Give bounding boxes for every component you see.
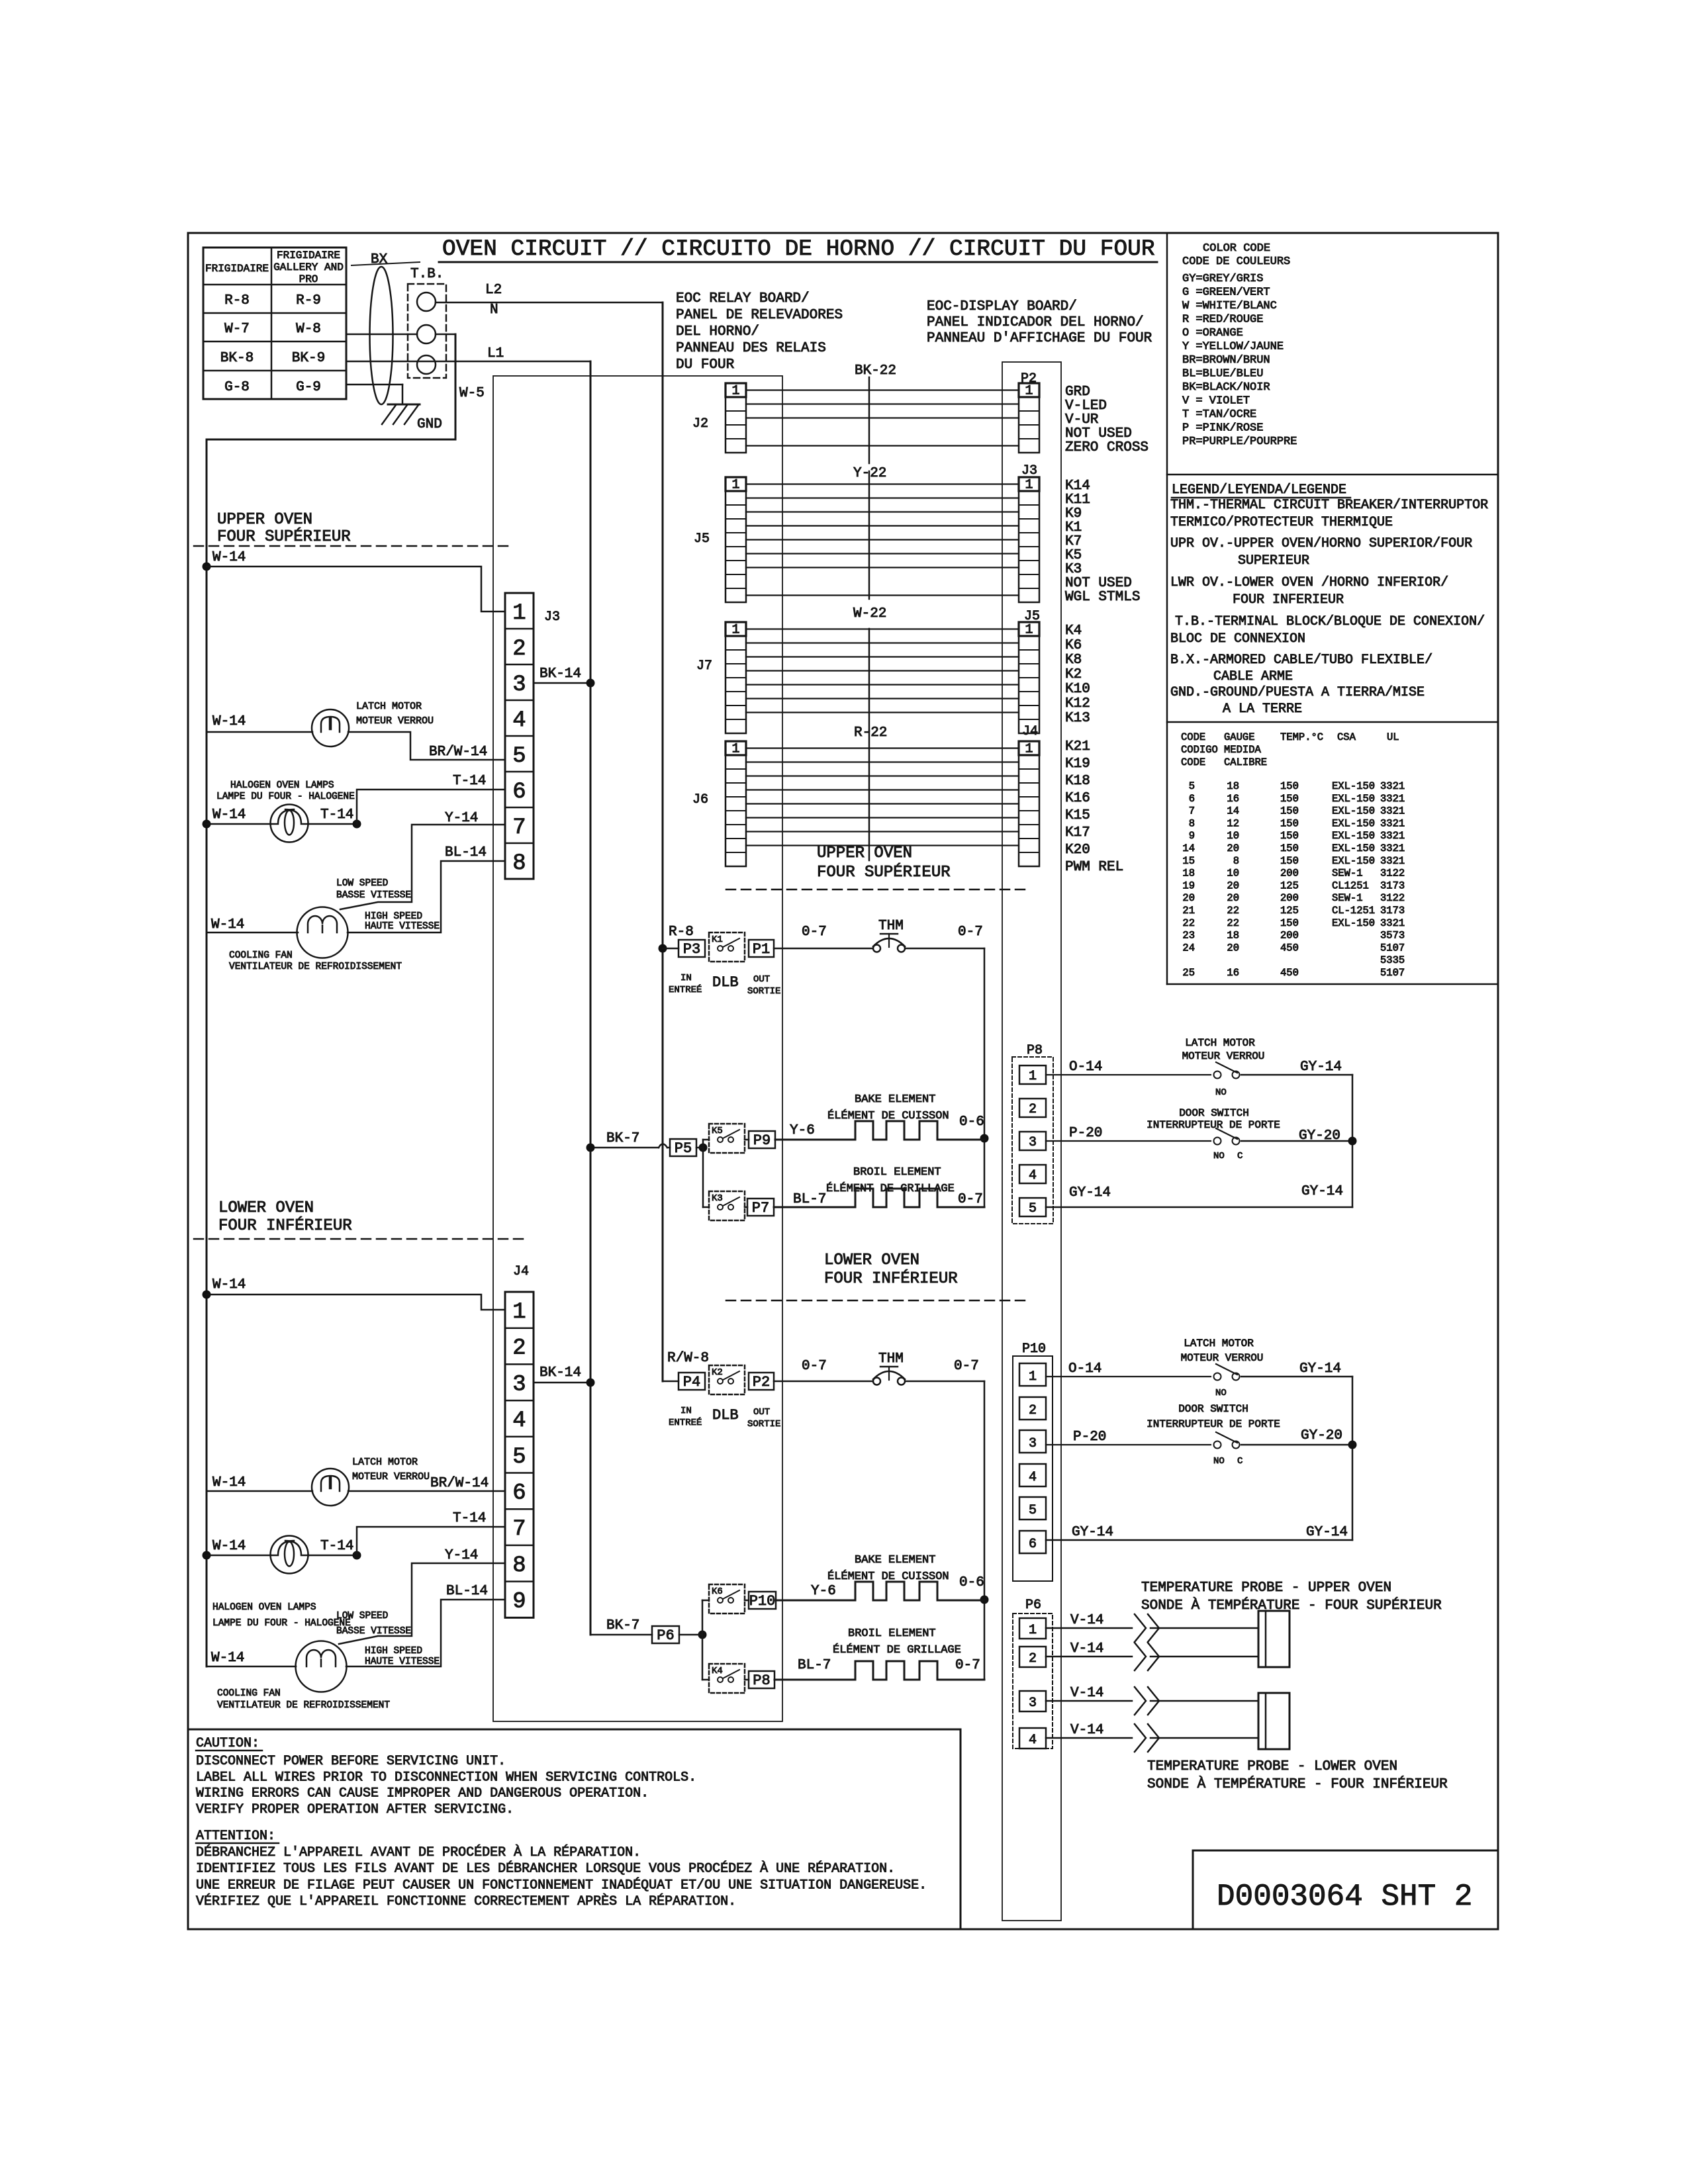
ground GND (388, 404, 420, 406)
svg-text:LWR OV.-LOWER OVEN /HORNO INFE: LWR OV.-LOWER OVEN /HORNO INFERIOR/ (1170, 575, 1448, 590)
svg-text:P-20: P-20 (1069, 1126, 1102, 1141)
svg-text:5107: 5107 (1380, 942, 1405, 954)
svg-text:J5: J5 (1024, 609, 1040, 624)
svg-text:UPPER OVEN: UPPER OVEN (217, 511, 312, 529)
svg-text:T =TAN/OCRE: T =TAN/OCRE (1182, 408, 1256, 421)
svg-text:K17: K17 (1065, 825, 1090, 841)
svg-text:3122: 3122 (1380, 892, 1405, 904)
svg-text:J5: J5 (694, 531, 710, 547)
svg-text:DOOR SWITCH: DOOR SWITCH (1179, 1107, 1249, 1119)
svg-text:COOLING FAN: COOLING FAN (229, 950, 293, 961)
svg-text:UPPER OVEN: UPPER OVEN (817, 844, 912, 862)
svg-text:K8: K8 (1065, 653, 1082, 668)
svg-text:J7: J7 (696, 659, 712, 674)
wire BK-22 row 3 (746, 417, 1019, 418)
connector P3 (679, 940, 705, 957)
svg-text:W-14: W-14 (211, 1651, 244, 1666)
svg-text:BK-7: BK-7 (606, 1131, 639, 1146)
svg-text:P6: P6 (1025, 1598, 1041, 1613)
svg-text:W-8: W-8 (296, 322, 321, 337)
svg-text:CL-1251: CL-1251 (1332, 905, 1375, 917)
svg-text:GY-14: GY-14 (1072, 1525, 1113, 1540)
wire R-22 row 4 (746, 789, 1019, 790)
svg-text:3: 3 (1029, 1696, 1037, 1711)
svg-text:1: 1 (731, 478, 739, 493)
connector J2 (left) (726, 383, 746, 453)
svg-text:1: 1 (1029, 1069, 1037, 1084)
svg-text:200: 200 (1280, 892, 1299, 904)
svg-text:D0003064 SHT 2: D0003064 SHT 2 (1217, 1880, 1472, 1914)
svg-text:150: 150 (1280, 917, 1299, 929)
svg-text:2: 2 (512, 1336, 526, 1361)
svg-text:20: 20 (1227, 842, 1239, 854)
relay K6 (709, 1584, 745, 1614)
wire 0-7/0-6 right leg upper (984, 948, 986, 1207)
svg-text:PANEL INDICADOR DEL HORNO/: PANEL INDICADOR DEL HORNO/ (927, 315, 1144, 330)
svg-text:DU FOUR: DU FOUR (676, 357, 735, 373)
svg-text:NO: NO (1213, 1151, 1225, 1161)
svg-text:HALOGEN OVEN LAMPS: HALOGEN OVEN LAMPS (230, 780, 334, 791)
svg-text:3573: 3573 (1380, 930, 1405, 942)
svg-text:150: 150 (1280, 817, 1299, 829)
svg-text:K5: K5 (712, 1126, 723, 1136)
connector J6 (left) (726, 741, 746, 866)
svg-text:PWM REL: PWM REL (1065, 860, 1123, 875)
svg-text:CODIGO: CODIGO (1181, 744, 1218, 756)
svg-text:14: 14 (1227, 805, 1239, 817)
svg-text:HAUTE VITESSE: HAUTE VITESSE (365, 1657, 440, 1667)
svg-text:BK-22: BK-22 (855, 363, 896, 379)
svg-text:NO: NO (1215, 1087, 1227, 1098)
svg-text:HAUTE VITESSE: HAUTE VITESSE (365, 921, 440, 932)
svg-text:DLB: DLB (712, 1407, 739, 1424)
svg-text:SEW-1: SEW-1 (1332, 892, 1363, 904)
title block D0003064 (1193, 1850, 1498, 1852)
svg-text:CALIBRE: CALIBRE (1224, 756, 1267, 768)
svg-text:R-22: R-22 (854, 725, 887, 741)
svg-text:K6: K6 (1065, 638, 1082, 653)
node L2 bus (662, 302, 664, 1381)
svg-text:THM: THM (878, 919, 904, 934)
svg-text:BAKE ELEMENT: BAKE ELEMENT (855, 1093, 935, 1106)
connector J5 (right) (1019, 622, 1039, 733)
svg-text:OUT: OUT (753, 1407, 770, 1418)
svg-text:CSA: CSA (1337, 731, 1356, 743)
svg-text:ENTREÉ: ENTREÉ (669, 1416, 702, 1428)
svg-text:2: 2 (512, 637, 526, 662)
svg-text:BK-8: BK-8 (220, 351, 254, 366)
svg-text:24: 24 (1182, 942, 1195, 954)
svg-text:7: 7 (1189, 805, 1195, 817)
wire Y-22 row 4 (746, 525, 1019, 526)
svg-text:BK-14: BK-14 (539, 666, 581, 682)
svg-text:GY-14: GY-14 (1299, 1361, 1341, 1377)
svg-text:9: 9 (1189, 830, 1195, 842)
wire R-22 row 8 (746, 844, 1019, 846)
svg-text:LAMPE DU FOUR - HALOGENE: LAMPE DU FOUR - HALOGENE (212, 1618, 351, 1629)
svg-text:K12: K12 (1065, 696, 1090, 711)
relay K3 feed (703, 1206, 709, 1208)
svg-text:19: 19 (1182, 880, 1195, 891)
relay K5 (709, 1124, 745, 1153)
svg-text:W-22: W-22 (853, 606, 886, 621)
svg-text:SEW-1: SEW-1 (1332, 868, 1363, 880)
svg-text:0-7: 0-7 (958, 1192, 983, 1207)
wire R-22 row 7 (746, 831, 1019, 832)
svg-text:BK-7: BK-7 (606, 1618, 639, 1633)
wire GY-14 lower latch (1241, 1376, 1352, 1378)
svg-text:22: 22 (1227, 905, 1239, 917)
svg-text:B.X.-ARMORED CABLE/TUBO FLEXIB: B.X.-ARMORED CABLE/TUBO FLEXIBLE/ (1170, 653, 1432, 668)
svg-text:3: 3 (512, 1372, 526, 1397)
svg-text:PANNEAU DES RELAIS: PANNEAU DES RELAIS (676, 341, 826, 356)
svg-text:2: 2 (1029, 1102, 1037, 1117)
svg-text:W-7: W-7 (224, 322, 250, 337)
svg-text:R =RED/ROUGE: R =RED/ROUGE (1182, 314, 1263, 326)
connector P4 (679, 1373, 705, 1390)
svg-text:V-14: V-14 (1070, 1641, 1103, 1657)
node W bus (206, 439, 208, 1666)
svg-text:150: 150 (1280, 855, 1299, 867)
svg-text:22: 22 (1182, 917, 1195, 929)
EOC relay board box (493, 376, 782, 1721)
svg-text:J2: J2 (692, 416, 708, 432)
svg-text:1: 1 (1025, 623, 1033, 638)
svg-text:0-7: 0-7 (954, 1359, 979, 1374)
svg-text:LOWER OVEN: LOWER OVEN (218, 1199, 314, 1217)
svg-text:P7: P7 (752, 1200, 769, 1216)
svg-text:6: 6 (512, 1481, 526, 1506)
svg-text:NO: NO (1213, 1456, 1225, 1467)
svg-text:1: 1 (1029, 1623, 1037, 1638)
svg-text:6: 6 (512, 780, 526, 805)
svg-text:EOC RELAY BOARD/: EOC RELAY BOARD/ (676, 291, 810, 306)
svg-text:6: 6 (1189, 793, 1195, 805)
svg-text:1: 1 (512, 601, 526, 626)
wire Y-22 row 1 (746, 483, 1019, 484)
svg-text:P5: P5 (675, 1140, 692, 1157)
connector P3/P4 in (663, 948, 679, 950)
svg-text:K14: K14 (1065, 478, 1090, 494)
svg-text:V-LED: V-LED (1065, 398, 1107, 414)
svg-text:3321: 3321 (1380, 780, 1405, 792)
wire 0-7 upper in (774, 948, 872, 950)
connector P10 (749, 1592, 776, 1609)
wire R-22 row 6 (746, 817, 1019, 818)
svg-text:MOTEUR VERROU: MOTEUR VERROU (1181, 1352, 1264, 1364)
svg-text:BROIL ELEMENT: BROIL ELEMENT (848, 1627, 936, 1640)
svg-text:ZERO CROSS: ZERO CROSS (1065, 440, 1149, 455)
svg-text:1: 1 (1029, 1369, 1037, 1385)
svg-text:0-7: 0-7 (958, 925, 983, 940)
svg-text:IN: IN (680, 1406, 692, 1416)
svg-text:BL-7: BL-7 (798, 1658, 831, 1673)
svg-text:20: 20 (1227, 892, 1239, 904)
svg-text:VENTILATEUR DE REFROIDISSEMENT: VENTILATEUR DE REFROIDISSEMENT (217, 1700, 390, 1711)
wire 0-7 upper out (906, 948, 984, 950)
svg-text:INTERRUPTEUR DE PORTE: INTERRUPTEUR DE PORTE (1147, 1119, 1280, 1131)
gauge table box (1167, 983, 1498, 985)
svg-text:R/W-8: R/W-8 (667, 1351, 709, 1366)
svg-text:L2: L2 (485, 283, 502, 298)
svg-text:K2: K2 (712, 1367, 723, 1378)
svg-text:4: 4 (512, 708, 526, 733)
svg-text:K1: K1 (1065, 520, 1082, 535)
svg-text:Y-6: Y-6 (811, 1584, 836, 1599)
wire 0-7/0-6 right leg lower (984, 1381, 986, 1680)
svg-text:FOUR INFERIEUR: FOUR INFERIEUR (1233, 592, 1344, 608)
svg-text:CABLE ARME: CABLE ARME (1213, 669, 1293, 684)
svg-text:125: 125 (1280, 880, 1299, 891)
svg-text:GND.-GROUND/PUESTA A TIERRA/MI: GND.-GROUND/PUESTA A TIERRA/MISE (1170, 685, 1425, 700)
svg-text:MOTEUR VERROU: MOTEUR VERROU (352, 1471, 430, 1482)
svg-text:K20: K20 (1065, 842, 1090, 858)
wire GY-14 upper return (1046, 1206, 1352, 1208)
svg-text:3: 3 (512, 672, 526, 698)
svg-text:LAMPE DU FOUR - HALOGENE: LAMPE DU FOUR - HALOGENE (216, 792, 355, 802)
svg-text:J4: J4 (1022, 724, 1038, 739)
svg-text:J3: J3 (1021, 463, 1037, 478)
svg-text:3321: 3321 (1380, 842, 1405, 854)
svg-text:LATCH MOTOR: LATCH MOTOR (1184, 1338, 1254, 1349)
svg-text:4: 4 (1029, 1733, 1037, 1748)
svg-text:O-14: O-14 (1069, 1060, 1102, 1075)
svg-text:NOT USED: NOT USED (1065, 576, 1132, 591)
svg-text:LEGEND/LEYENDA/LEGENDE: LEGEND/LEYENDA/LEGENDE (1172, 482, 1346, 498)
svg-text:3: 3 (1029, 1436, 1037, 1451)
svg-text:TERMICO/PROTECTEUR THERMIQUE: TERMICO/PROTECTEUR THERMIQUE (1170, 515, 1393, 530)
svg-text:DOOR SWITCH: DOOR SWITCH (1178, 1403, 1248, 1415)
svg-text:FRIGIDAIRE: FRIGIDAIRE (205, 263, 269, 275)
svg-text:BAKE ELEMENT: BAKE ELEMENT (855, 1554, 935, 1567)
svg-text:J3: J3 (544, 610, 560, 625)
wire Y-22 row 9 (746, 594, 1019, 596)
svg-text:P4: P4 (683, 1374, 700, 1390)
svg-text:0-7: 0-7 (802, 925, 827, 940)
svg-text:5335: 5335 (1380, 954, 1405, 966)
wire R-22 row 3 (746, 775, 1019, 776)
svg-text:SUPERIEUR: SUPERIEUR (1238, 553, 1309, 569)
svg-text:HALOGEN OVEN LAMPS: HALOGEN OVEN LAMPS (212, 1602, 316, 1613)
wire L2 (436, 302, 663, 304)
svg-text:1: 1 (1025, 742, 1033, 757)
svg-text:K21: K21 (1065, 739, 1090, 754)
svg-text:BL-14: BL-14 (445, 845, 487, 860)
svg-text:GY-20: GY-20 (1299, 1128, 1340, 1144)
svg-text:14: 14 (1182, 842, 1195, 854)
relay K4 feed (702, 1679, 709, 1681)
border frame (188, 233, 1498, 1929)
svg-text:ENTREÉ: ENTREÉ (669, 983, 702, 995)
svg-text:2: 2 (1029, 1651, 1037, 1666)
svg-text:K7: K7 (1065, 534, 1082, 549)
svg-text:5: 5 (1029, 1201, 1037, 1216)
svg-text:ATTENTION:: ATTENTION: (196, 1829, 275, 1844)
svg-text:PANNEAU D'AFFICHAGE DU FOUR: PANNEAU D'AFFICHAGE DU FOUR (927, 331, 1152, 346)
svg-text:P6: P6 (657, 1627, 674, 1644)
wire V-14 probe 1 (1046, 1627, 1132, 1629)
svg-text:150: 150 (1280, 805, 1299, 817)
svg-text:K13: K13 (1065, 711, 1090, 726)
svg-text:CAUTION:: CAUTION: (196, 1736, 259, 1751)
wire K6/K4 split lower (702, 1600, 704, 1680)
svg-text:Y-14: Y-14 (445, 811, 478, 826)
wire N (346, 334, 417, 336)
connector P8 (749, 1671, 774, 1688)
svg-text:3321: 3321 (1380, 917, 1405, 929)
wire GY-20 upper (1241, 1140, 1352, 1142)
svg-text:PRO: PRO (299, 273, 318, 285)
svg-text:LATCH MOTOR: LATCH MOTOR (352, 1457, 418, 1468)
svg-text:A LA TERRE: A LA TERRE (1223, 702, 1302, 717)
svg-text:PR=PURPLE/POURPRE: PR=PURPLE/POURPRE (1182, 435, 1297, 448)
svg-text:K3: K3 (1065, 562, 1082, 577)
svg-text:EXL-150: EXL-150 (1332, 780, 1375, 792)
svg-text:EXL-150: EXL-150 (1332, 830, 1375, 842)
svg-text:MEDIDA: MEDIDA (1224, 744, 1262, 756)
svg-text:CODE: CODE (1181, 756, 1205, 768)
svg-text:P3: P3 (683, 941, 700, 958)
node L1/BK bus (590, 361, 592, 1635)
svg-text:1: 1 (731, 742, 739, 757)
svg-text:K4: K4 (712, 1666, 723, 1676)
svg-text:V-14: V-14 (1070, 1686, 1103, 1701)
svg-text:8: 8 (1189, 817, 1195, 829)
svg-text:TEMP.°C: TEMP.°C (1280, 731, 1323, 743)
svg-text:1: 1 (731, 384, 739, 399)
svg-text:8: 8 (512, 851, 526, 876)
svg-text:3321: 3321 (1380, 855, 1405, 867)
svg-text:GRD: GRD (1065, 385, 1090, 400)
EOC display board box (1002, 362, 1061, 1921)
svg-text:W-14: W-14 (212, 1277, 246, 1293)
svg-text:IDENTIFIEZ TOUS LES FILS AVANT: IDENTIFIEZ TOUS LES FILS AVANT DE LES DÉ… (196, 1861, 895, 1877)
svg-text:FRIGIDAIRE: FRIGIDAIRE (277, 250, 340, 261)
svg-text:150: 150 (1280, 780, 1299, 792)
svg-text:MOTEUR VERROU: MOTEUR VERROU (356, 715, 434, 727)
svg-text:WIRING ERRORS CAN CAUSE IMPROP: WIRING ERRORS CAN CAUSE IMPROPER AND DAN… (196, 1786, 649, 1801)
svg-text:5107: 5107 (1380, 967, 1405, 979)
svg-text:3: 3 (1029, 1135, 1037, 1150)
wire 0-7 lower in (774, 1381, 872, 1383)
svg-text:T-14: T-14 (453, 1511, 486, 1526)
color code box (1166, 233, 1168, 984)
svg-text:LOW SPEED: LOW SPEED (336, 1611, 388, 1621)
svg-text:K4: K4 (1065, 623, 1082, 639)
svg-text:K19: K19 (1065, 756, 1090, 772)
svg-text:1: 1 (512, 1300, 526, 1325)
svg-text:W-14: W-14 (212, 1475, 246, 1490)
svg-text:W-14: W-14 (211, 917, 244, 933)
svg-text:0-6: 0-6 (959, 1575, 984, 1590)
svg-text:TEMPERATURE PROBE - UPPER OVEN: TEMPERATURE PROBE - UPPER OVEN (1141, 1580, 1391, 1596)
svg-text:VÉRIFIEZ QUE L'APPAREIL FONCTI: VÉRIFIEZ QUE L'APPAREIL FONCTIONNE CORRE… (196, 1893, 736, 1909)
svg-text:SORTIE: SORTIE (747, 986, 780, 997)
relay K3 (709, 1191, 745, 1220)
svg-text:BASSE VITESSE: BASSE VITESSE (336, 1626, 411, 1637)
svg-text:200: 200 (1280, 868, 1299, 880)
svg-text:O =ORANGE: O =ORANGE (1182, 327, 1243, 340)
connector J4 (right) (1019, 741, 1039, 866)
svg-text:W-14: W-14 (212, 807, 246, 823)
svg-text:J4: J4 (513, 1264, 529, 1279)
svg-text:VENTILATEUR DE REFROIDISSEMENT: VENTILATEUR DE REFROIDISSEMENT (229, 962, 402, 972)
svg-text:LATCH MOTOR: LATCH MOTOR (1185, 1037, 1255, 1049)
svg-text:16: 16 (1227, 793, 1239, 805)
relay K1 (709, 933, 745, 962)
svg-text:SONDE À TEMPÉRATURE - FOUR INF: SONDE À TEMPÉRATURE - FOUR INFÉRIEUR (1147, 1776, 1448, 1792)
svg-text:R-9: R-9 (296, 293, 321, 308)
svg-text:450: 450 (1280, 967, 1299, 979)
caution box (188, 1729, 961, 1731)
temperature probe lower oven (1258, 1693, 1289, 1749)
svg-text:V-UR: V-UR (1065, 412, 1099, 428)
svg-text:0-6: 0-6 (959, 1115, 984, 1130)
svg-text:K15: K15 (1065, 808, 1090, 823)
svg-text:BR/W-14: BR/W-14 (429, 745, 487, 760)
wire V-14 probe 4 (1046, 1737, 1132, 1739)
svg-text:MOTEUR VERROU: MOTEUR VERROU (1182, 1050, 1265, 1062)
wire BK-22 row 5 (746, 445, 1019, 446)
svg-text:18: 18 (1182, 868, 1195, 880)
svg-text:C: C (1237, 1151, 1243, 1161)
svg-text:1: 1 (731, 623, 739, 638)
connector P1 (749, 940, 774, 957)
wire Y-22 row 2 (746, 497, 1019, 498)
wire Y-22 row 7 (746, 567, 1019, 568)
svg-text:15: 15 (1182, 855, 1195, 867)
svg-text:COOLING FAN: COOLING FAN (217, 1688, 281, 1699)
legend box (1167, 721, 1498, 723)
svg-text:V-14: V-14 (1070, 1613, 1103, 1628)
svg-text:CL1251: CL1251 (1332, 880, 1369, 891)
wire GY-20 lower (1241, 1444, 1352, 1446)
svg-text:K9: K9 (1065, 506, 1082, 522)
svg-text:8: 8 (512, 1553, 526, 1578)
svg-text:UL: UL (1387, 731, 1399, 743)
svg-text:LOWER OVEN: LOWER OVEN (824, 1251, 919, 1269)
svg-text:EXL-150: EXL-150 (1332, 805, 1375, 817)
svg-text:GND: GND (417, 417, 442, 432)
wire W-22 row 4 (746, 670, 1019, 671)
connector P2 (right) (1019, 383, 1039, 453)
svg-text:LABEL ALL WIRES PRIOR TO DISCO: LABEL ALL WIRES PRIOR TO DISCONNECTION W… (196, 1770, 696, 1785)
svg-text:450: 450 (1280, 942, 1299, 954)
svg-text:FOUR INFÉRIEUR: FOUR INFÉRIEUR (218, 1216, 352, 1235)
svg-text:K18: K18 (1065, 774, 1090, 789)
svg-text:FOUR INFÉRIEUR: FOUR INFÉRIEUR (824, 1269, 958, 1288)
connector P6 (652, 1626, 679, 1643)
wire W-5 neutral run (207, 439, 455, 441)
svg-text:P1: P1 (753, 941, 770, 958)
svg-text:V = VIOLET: V = VIOLET (1182, 395, 1250, 408)
wire W-22 row 5 (746, 684, 1019, 685)
svg-text:16: 16 (1227, 967, 1239, 979)
svg-text:DLB: DLB (712, 974, 739, 991)
wire W-22 row 6 (746, 698, 1019, 699)
svg-text:K10: K10 (1065, 682, 1090, 697)
relay K2 (709, 1365, 745, 1394)
svg-text:C: C (1237, 1456, 1243, 1467)
svg-text:P10: P10 (1022, 1342, 1046, 1357)
svg-text:4: 4 (1029, 1470, 1037, 1485)
svg-text:3321: 3321 (1380, 793, 1405, 805)
wire P-20 lower (1046, 1444, 1211, 1445)
svg-text:GY-14: GY-14 (1301, 1184, 1343, 1199)
svg-text:L1: L1 (487, 346, 504, 361)
wire O-14 lower (1046, 1376, 1211, 1377)
svg-text:EXL-150: EXL-150 (1332, 842, 1375, 854)
